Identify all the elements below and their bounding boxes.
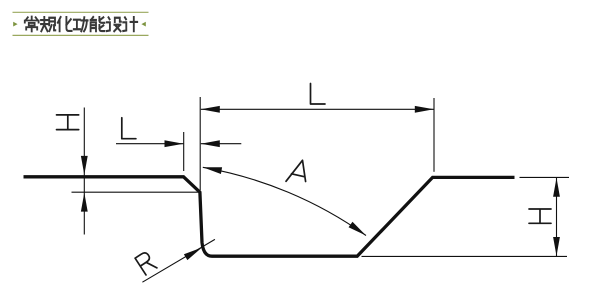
header bottom rule [13, 34, 149, 36]
top L right arrow [415, 106, 434, 113]
right extension line of top L [433, 98, 435, 172]
header left triangle [13, 22, 17, 27]
char 功 [74, 17, 88, 31]
right H up arrow [553, 178, 560, 197]
thin line under top-left surface (depth reference) [72, 191, 200, 193]
label A (angle) [286, 160, 306, 181]
left H dimension line [83, 108, 85, 235]
top-right surface extension thin line [520, 176, 570, 178]
long extension line at chamfer end [199, 97, 201, 190]
R leader arrow [184, 245, 204, 261]
R leader line [142, 239, 215, 282]
header right triangle [141, 22, 145, 27]
dimension letters [57, 84, 552, 275]
header top rule [13, 11, 149, 13]
top L left arrow [201, 106, 220, 113]
label H (left, rotated 90) [57, 115, 79, 130]
A arc left arrow [202, 164, 222, 174]
char 常 [25, 17, 39, 32]
label R (radius) [135, 251, 157, 275]
char 设 [107, 17, 121, 31]
char 化 [58, 17, 72, 31]
left H down arrow [81, 156, 88, 175]
left H up arrow [81, 193, 88, 212]
label H (right, rotated 90) [529, 209, 551, 223]
label L (top dimension) [311, 84, 326, 105]
small L right-pointing arrow [165, 140, 184, 147]
char 能 [91, 17, 105, 31]
top L dimension line [201, 108, 434, 110]
header title 常规化功能设计 (hand-drawn strokes) [25, 17, 137, 32]
label L (small dimension) [122, 118, 136, 139]
angle A arc [203, 167, 366, 235]
small L dimension line right part [201, 143, 242, 145]
bottom surface extension thin line [362, 255, 568, 257]
char 计 [123, 17, 137, 31]
profile outline (thick) [24, 177, 515, 256]
right H down arrow [553, 237, 560, 256]
short extension line at chamfer start [183, 132, 185, 171]
char 规 [41, 17, 55, 31]
small L dimension line left part [116, 143, 183, 145]
small L left-pointing arrow [201, 140, 220, 147]
A arc right arrow [349, 222, 368, 239]
right H dimension line [556, 178, 558, 257]
